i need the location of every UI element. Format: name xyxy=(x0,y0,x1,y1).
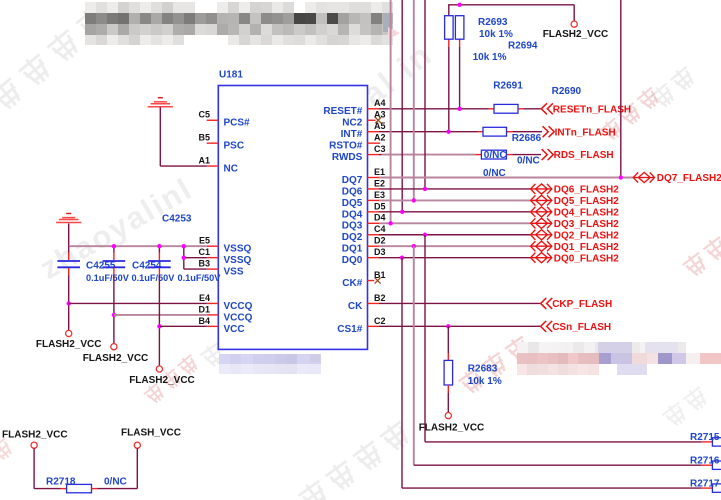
off-page connector DQ0_FLASH2 xyxy=(531,253,536,263)
capacitor at x=68.7 xyxy=(68,246,70,252)
junction R2694 top xyxy=(457,3,461,7)
watermark gray CJK top-left xyxy=(0,75,26,114)
svg-text:C3: C3 xyxy=(374,144,386,154)
svg-text:NC: NC xyxy=(224,163,238,174)
svg-text:PCS#: PCS# xyxy=(224,118,251,129)
wire VCCQ rail (D1) xyxy=(114,314,207,316)
power symbol FLASH2_VCC 3 xyxy=(156,366,162,372)
svg-text:FLASH2_VCC: FLASH2_VCC xyxy=(543,29,609,40)
svg-text:R2693: R2693 xyxy=(478,17,508,28)
ground symbol (VSSQ rail) xyxy=(66,213,71,215)
svg-text:C4254: C4254 xyxy=(132,260,162,271)
pin D4/DQ3 stub xyxy=(368,222,380,224)
svg-text:VSSQ: VSSQ xyxy=(224,255,252,266)
wire cap1 to FLASH2_VCC xyxy=(68,276,70,331)
pin B5/PSC stub xyxy=(207,142,219,144)
off-page connector CKP_FLASH xyxy=(541,298,547,309)
svg-text:FLASH_VCC: FLASH_VCC xyxy=(121,428,181,439)
pin A5/INT# stub xyxy=(368,131,380,133)
svg-text:E1: E1 xyxy=(374,167,385,177)
svg-text:FLASH2_VCC: FLASH2_VCC xyxy=(419,422,485,433)
svg-text:B2: B2 xyxy=(374,293,386,303)
pin C4/DQ2 stub xyxy=(368,234,380,236)
svg-text:10k 1%: 10k 1% xyxy=(473,52,507,63)
svg-text:DQ3: DQ3 xyxy=(342,221,363,232)
svg-text:FLASH2_VCC: FLASH2_VCC xyxy=(36,339,102,350)
wire DQ1 to R2716 xyxy=(413,246,415,465)
no-connect X on pin B1 CK# xyxy=(375,278,381,284)
power symbol FLASH2_VCC (R2683) xyxy=(445,413,451,419)
svg-text:R2717: R2717 xyxy=(690,478,720,489)
svg-text:FLASH2_VCC: FLASH2_VCC xyxy=(129,375,195,386)
resistor R2694 xyxy=(459,39,461,47)
svg-text:DQ6_FLASH2: DQ6_FLASH2 xyxy=(554,185,619,196)
svg-text:R2683: R2683 xyxy=(468,363,498,374)
svg-text:D1: D1 xyxy=(198,304,210,314)
pin A4/RESET# stub xyxy=(368,108,380,110)
wire VCC rail (B4) xyxy=(159,325,206,327)
svg-text:CSn_FLASH: CSn_FLASH xyxy=(552,322,611,333)
resistor R2717 (partial) xyxy=(712,484,721,492)
pin C5/PCS# stub xyxy=(207,119,219,121)
wire CS1# net xyxy=(379,325,541,327)
junction VCC rail B4 xyxy=(157,324,161,328)
wire CS1# to R2683 xyxy=(447,326,449,353)
power symbol FLASH2_VCC 2 xyxy=(111,344,117,350)
off-page connector DQ5_FLASH2 xyxy=(531,195,536,205)
pin E4/VCCQ stub xyxy=(207,302,219,304)
svg-text:B3: B3 xyxy=(198,259,210,269)
op-amp/IC U181 body xyxy=(218,86,367,350)
wire DQ7 net xyxy=(379,177,633,179)
svg-text:E4: E4 xyxy=(199,293,210,303)
junction DQ6 riser xyxy=(423,187,427,191)
power symbol FLASH_VCC (R2718 right) xyxy=(134,442,140,448)
wire INT# net xyxy=(379,131,478,133)
svg-text:R2691: R2691 xyxy=(493,80,523,91)
svg-text:R2690: R2690 xyxy=(552,86,582,97)
watermark red CJK bottom-middle xyxy=(457,366,488,397)
power symbol FLASH2_VCC 1 xyxy=(66,330,72,336)
junction DQ2 riser xyxy=(423,233,427,237)
wire DQ0 to R2717 xyxy=(401,258,403,488)
svg-text:0/NC: 0/NC xyxy=(483,168,506,179)
svg-text:NC2: NC2 xyxy=(342,118,362,129)
pin D1/VCCQ stub xyxy=(207,314,219,316)
power symbol FLASH2_VCC top xyxy=(571,21,577,27)
svg-text:R2716: R2716 xyxy=(690,455,720,466)
pin B4/VCC stub xyxy=(207,325,219,327)
svg-text:DQ5: DQ5 xyxy=(342,198,363,209)
wire R2718 to FLASH_VCC xyxy=(92,488,98,490)
wire DQ6 riser xyxy=(424,0,426,189)
svg-text:FLASH2_VCC: FLASH2_VCC xyxy=(83,353,149,364)
svg-text:C4: C4 xyxy=(374,224,386,234)
pin A1/NC stub xyxy=(207,165,219,167)
wire cap3 to FLASH2_VCC xyxy=(158,276,160,366)
svg-text:R2694: R2694 xyxy=(508,40,538,51)
pixelated redaction under IC xyxy=(219,354,321,374)
pin A3/NC2 stub xyxy=(368,119,376,121)
svg-text:0.1uF/50V: 0.1uF/50V xyxy=(178,273,222,283)
off-page connector DQ2_FLASH2 xyxy=(531,230,536,240)
off-page connector DQ6_FLASH2 xyxy=(531,184,536,194)
svg-text:A2: A2 xyxy=(374,133,386,143)
off-page connector CSn_FLASH xyxy=(541,321,547,332)
pin E5/VSSQ stub xyxy=(207,245,219,247)
wire FLASH2_VCC top rail xyxy=(448,5,450,16)
svg-text:DQ2_FLASH2: DQ2_FLASH2 xyxy=(554,230,619,241)
capacitor at x=159.4 xyxy=(158,246,160,252)
svg-text:D2: D2 xyxy=(374,236,386,246)
resistor R2686 xyxy=(483,127,507,136)
svg-text:VCCQ: VCCQ xyxy=(224,301,253,312)
pin C3/RWDS stub xyxy=(368,154,380,156)
pixelated redaction strip top xyxy=(85,2,400,45)
wire CK net xyxy=(379,302,541,304)
svg-text:RDS_FLASH: RDS_FLASH xyxy=(554,150,614,161)
no-connect X on pin A3 NC2 xyxy=(375,117,381,123)
svg-text:R2718: R2718 xyxy=(46,476,76,487)
resistor R2718 xyxy=(67,484,92,492)
svg-text:A4: A4 xyxy=(374,98,386,108)
wire RWDS net xyxy=(379,154,382,156)
wire VCCQ rail (E4) xyxy=(69,302,207,304)
junction E5 rail xyxy=(182,244,186,248)
svg-text:DQ2: DQ2 xyxy=(342,232,363,243)
pin C1/VSSQ stub xyxy=(207,257,219,259)
svg-text:DQ6: DQ6 xyxy=(342,186,363,197)
wire R2683 to FLASH2_VCC xyxy=(447,385,449,393)
off-page connector DQ7_FLASH2 xyxy=(633,172,638,182)
wire DQ4 net xyxy=(379,211,531,213)
svg-text:DQ0: DQ0 xyxy=(342,255,363,266)
capacitor at x=113.9 xyxy=(113,246,115,252)
wire DQ2 to R2715 xyxy=(424,235,426,442)
svg-text:DQ3_FLASH2: DQ3_FLASH2 xyxy=(554,219,619,230)
svg-text:D3: D3 xyxy=(374,247,386,257)
svg-text:E2: E2 xyxy=(374,178,385,188)
pixelated redaction right-middle xyxy=(517,342,721,375)
power symbol FLASH2_VCC (R2718 left) xyxy=(31,442,37,448)
svg-text:CS1#: CS1# xyxy=(337,324,362,335)
watermark zhaoyalinl left-middle xyxy=(34,171,199,286)
wire DQ5 net xyxy=(379,199,531,201)
junction DQ4 riser xyxy=(400,210,404,214)
pin B2/CK stub xyxy=(368,302,380,304)
svg-text:RWDS: RWDS xyxy=(332,152,363,163)
resistor 0/NC on RWDS xyxy=(481,150,506,159)
watermark red CJK left-edge xyxy=(0,436,16,464)
svg-text:0/NC: 0/NC xyxy=(484,150,507,161)
watermark gray CJK bottom-center xyxy=(296,477,332,500)
pin B1/CK# stub xyxy=(368,280,375,282)
wire ground to NC pin xyxy=(159,107,161,166)
wire DQ1 net xyxy=(379,245,531,247)
svg-text:INTn_FLASH: INTn_FLASH xyxy=(555,127,616,138)
pin B3/VSS stub xyxy=(207,268,219,270)
resistor R2683 xyxy=(444,360,453,385)
wire cap2 to FLASH2_VCC xyxy=(113,276,115,344)
pin A2/RSTO# stub xyxy=(368,142,381,144)
wire VSS branch B3 xyxy=(184,268,207,270)
svg-text:DQ7_FLASH2: DQ7_FLASH2 xyxy=(657,173,721,184)
svg-text:DQ4_FLASH2: DQ4_FLASH2 xyxy=(554,207,619,218)
junction DQ7 riser xyxy=(619,175,623,179)
wire DQ7 riser xyxy=(620,0,622,178)
svg-text:B5: B5 xyxy=(198,133,210,143)
svg-text:C1: C1 xyxy=(198,247,210,257)
wire FLASH2_VCC to R2718 xyxy=(33,448,35,488)
junction CS1#/R2683 xyxy=(446,324,450,328)
watermark gray CJK small mid-bottom xyxy=(198,340,227,370)
svg-text:A1: A1 xyxy=(198,155,210,165)
svg-text:C4255: C4255 xyxy=(86,260,116,271)
svg-text:C5: C5 xyxy=(198,110,210,120)
junction VCCQ rail E4 xyxy=(67,301,71,305)
pin D3/DQ0 stub xyxy=(368,257,380,259)
junction DQ0 riser xyxy=(400,255,404,259)
svg-text:R2686: R2686 xyxy=(512,133,542,144)
svg-text:VCCQ: VCCQ xyxy=(224,312,253,323)
junction RESET#/R2694 xyxy=(457,107,461,111)
resistor R2691 xyxy=(494,104,518,113)
svg-text:DQ7: DQ7 xyxy=(342,175,363,186)
svg-text:10k 1%: 10k 1% xyxy=(468,376,502,387)
off-page connector INTn_FLASH xyxy=(543,126,549,137)
off-page connector DQ3_FLASH2 xyxy=(531,218,536,228)
junction C1 branch xyxy=(182,255,186,259)
svg-text:DQ1: DQ1 xyxy=(342,244,363,255)
resistor R2715 (partial) xyxy=(712,438,721,446)
wire DQ3 riser xyxy=(390,0,392,223)
wire DQ0 net xyxy=(379,257,531,259)
svg-text:VSSQ: VSSQ xyxy=(224,244,252,255)
wire VSSQ rail (E5) xyxy=(69,245,207,247)
svg-text:C4253: C4253 xyxy=(162,214,192,225)
watermark red CJK bottom-left xyxy=(142,381,167,406)
junction VCCQ rail D1 xyxy=(112,313,116,317)
svg-text:C2: C2 xyxy=(374,316,386,326)
wire RESET# net xyxy=(379,108,489,110)
svg-text:0/NC: 0/NC xyxy=(104,476,127,487)
svg-text:CKP_FLASH: CKP_FLASH xyxy=(552,299,612,310)
svg-text:B4: B4 xyxy=(198,316,210,326)
wire DQ3 net xyxy=(379,222,531,224)
resistor R2693 xyxy=(448,39,450,47)
svg-text:VSS: VSS xyxy=(224,267,244,278)
pin E1/DQ7 stub xyxy=(368,177,380,179)
wire DQ5 riser xyxy=(413,0,415,200)
svg-text:DQ5_FLASH2: DQ5_FLASH2 xyxy=(554,196,619,207)
svg-text:RSTO#: RSTO# xyxy=(329,141,363,152)
junction cap3 top xyxy=(157,244,161,248)
wire DQ6 net xyxy=(379,188,531,190)
wire DQ2 net xyxy=(379,234,531,236)
svg-text:CK: CK xyxy=(348,301,363,312)
svg-text:E3: E3 xyxy=(374,190,385,200)
junction cap2 top xyxy=(112,244,116,248)
junction DQ5 riser xyxy=(412,198,416,202)
svg-text:0.1uF/50V: 0.1uF/50V xyxy=(86,273,130,283)
junction DQ1 riser xyxy=(412,244,416,248)
wire VSSQ branch C1 xyxy=(183,246,185,269)
junction DQ3 riser xyxy=(388,221,392,225)
watermark red CJK right-edge xyxy=(680,250,710,280)
resistor R2716 (partial) xyxy=(712,461,721,469)
ground symbol (NC pin) xyxy=(158,97,163,99)
watermark gray CJK bottom-right xyxy=(660,400,690,430)
svg-text:RESETn_FLASH: RESETn_FLASH xyxy=(553,104,631,115)
svg-text:FLASH2_VCC: FLASH2_VCC xyxy=(2,430,68,441)
pin E2/DQ6 stub xyxy=(368,188,380,190)
svg-text:CK#: CK# xyxy=(342,278,362,289)
svg-text:0.1uF/50V: 0.1uF/50V xyxy=(132,273,176,283)
svg-text:0/NC: 0/NC xyxy=(517,156,540,167)
svg-text:DQ4: DQ4 xyxy=(342,209,363,220)
svg-text:DQ0_FLASH2: DQ0_FLASH2 xyxy=(554,253,619,264)
svg-text:INT#: INT# xyxy=(341,129,363,140)
watermark red CJK upper-right xyxy=(598,116,626,144)
watermark gray CJK top-right corner xyxy=(648,81,678,111)
svg-text:D4: D4 xyxy=(374,213,386,223)
junction INT#/R2693 xyxy=(446,130,450,134)
off-page connector DQ4_FLASH2 xyxy=(531,207,536,217)
pin C2/CS1# stub xyxy=(368,325,380,327)
wire ground to VSSQ rail xyxy=(68,224,70,247)
svg-text:R2715: R2715 xyxy=(690,432,720,443)
pin D2/DQ1 stub xyxy=(368,245,380,247)
off-page connector RESETn_FLASH xyxy=(541,103,547,114)
svg-text:D5: D5 xyxy=(374,201,386,211)
pin E3/DQ5 stub xyxy=(368,199,380,201)
wire DQ4 riser xyxy=(401,0,403,212)
svg-text:E5: E5 xyxy=(199,236,210,246)
svg-text:DQ1_FLASH2: DQ1_FLASH2 xyxy=(554,242,619,253)
off-page connector RDS_FLASH xyxy=(542,149,548,160)
svg-text:U181: U181 xyxy=(219,70,243,81)
svg-text:10k 1%: 10k 1% xyxy=(479,29,513,40)
svg-text:VCC: VCC xyxy=(224,324,245,335)
svg-text:RESET#: RESET# xyxy=(323,106,362,117)
watermark zhaoyalinl upper-middle xyxy=(272,35,440,177)
off-page connector DQ1_FLASH2 xyxy=(531,241,536,251)
pin D5/DQ4 stub xyxy=(368,211,380,213)
svg-text:PSC: PSC xyxy=(224,141,245,152)
